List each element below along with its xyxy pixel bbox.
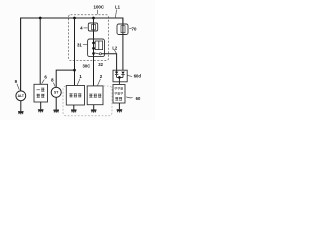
- svg-text:ALT: ALT: [18, 94, 25, 98]
- leader 6: [42, 80, 45, 84]
- wire L2 from switch: [102, 54, 117, 72]
- leader 31: [83, 44, 87, 46]
- node dot bus/general-load: [39, 17, 42, 20]
- svg-text:100C: 100C: [94, 5, 105, 10]
- leader 70: [129, 28, 131, 30]
- fuse F4 element: [92, 24, 96, 29]
- sub battery box 2: [87, 86, 103, 105]
- svg-text:L2: L2: [112, 45, 118, 50]
- backup load text line1 バック: [115, 87, 123, 89]
- diode D1: [115, 72, 118, 75]
- relay switch arm: [94, 53, 100, 54]
- svg-text:70: 70: [132, 26, 137, 31]
- general load text 負荷: [37, 94, 45, 97]
- leader L2: [114, 50, 116, 53]
- leader 1: [77, 79, 80, 85]
- main battery text 主電池: [69, 94, 81, 97]
- node dot coil top: [92, 42, 95, 45]
- leader 100C: [96, 10, 98, 15]
- diode D2: [121, 72, 124, 75]
- background: [0, 0, 155, 120]
- svg-text:L1: L1: [115, 5, 121, 10]
- node dot switch: [92, 52, 95, 55]
- wire fuse4/relay drop 32: [93, 18, 95, 86]
- wire 30C drop to main battery: [74, 18, 76, 86]
- ground ST: [55, 97, 57, 109]
- node dot ST junction: [73, 69, 76, 72]
- svg-text:30C: 30C: [83, 63, 91, 68]
- leader 2: [98, 79, 101, 86]
- wire ST branch: [56, 70, 74, 87]
- wire left diode feed: [116, 70, 118, 72]
- main battery box 1: [66, 86, 84, 106]
- svg-text:32: 32: [98, 62, 103, 67]
- ground backup load: [118, 103, 120, 109]
- relay coil: [95, 41, 102, 50]
- fuse F70 element: [121, 26, 125, 33]
- leader 9: [17, 84, 19, 90]
- relay box 31: [88, 39, 105, 57]
- general load box 6: [34, 84, 48, 102]
- fuse F70 box: [117, 24, 128, 35]
- relay coil stubs: [94, 43, 96, 48]
- svg-text:60d: 60d: [134, 74, 142, 79]
- alternator ALT 9: [16, 91, 26, 101]
- svg-text:60: 60: [136, 96, 141, 101]
- wire diode join: [117, 77, 123, 84]
- node dot bus/30C: [73, 17, 76, 20]
- node dot coil bottom: [92, 47, 95, 50]
- backup load text line3 負荷: [115, 97, 122, 100]
- relay switch contact: [99, 53, 101, 55]
- ground main battery: [73, 105, 75, 110]
- relay coil divider: [98, 41, 100, 50]
- sub battery text 副電池: [89, 94, 101, 97]
- leader L1: [115, 10, 116, 18]
- dashed controller box 100C: [69, 15, 109, 61]
- general load text 一般: [36, 88, 44, 91]
- ground general load: [40, 102, 42, 109]
- node dot diode join: [118, 76, 121, 79]
- wire through relay: [93, 39, 95, 57]
- backup load text line2 アップ: [115, 92, 123, 94]
- leader 60d: [127, 75, 132, 76]
- wire bus B+ horizontal: [21, 18, 123, 91]
- starter ST 8: [51, 87, 61, 97]
- wire general load drop: [39, 18, 41, 84]
- ground sub battery: [93, 105, 95, 110]
- svg-text:31: 31: [77, 42, 82, 47]
- ground ALT: [20, 101, 22, 112]
- dashed battery-unit enclosure (bottom): [63, 86, 112, 116]
- wire through fuse70: [122, 24, 124, 72]
- leader 4: [84, 27, 88, 29]
- node dot bus/fuse4: [92, 17, 95, 20]
- leader 60: [126, 97, 132, 98]
- leader 8: [53, 83, 55, 87]
- diode box 60d: [113, 70, 127, 82]
- fuse F4 box: [88, 23, 97, 31]
- wire through fuse4: [93, 23, 95, 31]
- backup load box 60: [113, 85, 125, 104]
